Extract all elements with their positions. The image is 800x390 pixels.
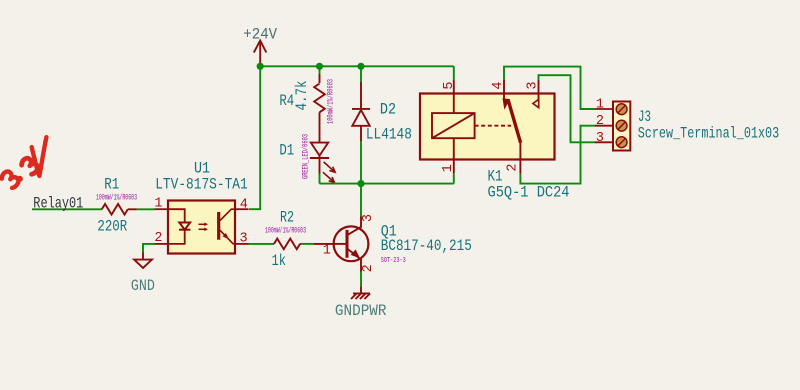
svg-text:4: 4 (491, 81, 506, 89)
bottom rail wire (320, 183, 454, 185)
svg-text:100mW/1%/R0603: 100mW/1%/R0603 (96, 193, 137, 202)
svg-text:R2: R2 (280, 209, 294, 227)
svg-text:3: 3 (240, 232, 248, 247)
wire R2 to Q1 base (249, 243, 274, 245)
diode D2 (360, 66, 362, 82)
svg-text:1: 1 (323, 244, 331, 259)
svg-text:1: 1 (154, 196, 162, 211)
svg-text:G5Q-1 DC24: G5Q-1 DC24 (488, 184, 570, 202)
annotation 3.3V handwritten (0, 137, 46, 189)
svg-text:2: 2 (596, 114, 604, 129)
wire U1 pin2 to GND (143, 244, 155, 253)
dashed link (475, 125, 511, 127)
pin stubs (155, 208, 169, 210)
svg-text:4.7k: 4.7k (293, 81, 311, 111)
svg-text:GNDPWR: GNDPWR (335, 302, 387, 320)
wire R1 to U1 pin1 (137, 208, 155, 210)
opto-coupler U1 (154, 159, 248, 253)
connector J3 (595, 98, 780, 151)
pin 2 (519, 143, 521, 174)
wire relay pin2 to J3 pin2 (520, 126, 594, 184)
svg-text:SOT-23-3: SOT-23-3 (381, 257, 406, 265)
wire relay pin4 to J3 pin1 (504, 67, 595, 109)
svg-text:4: 4 (240, 197, 248, 212)
svg-text:2: 2 (361, 264, 376, 272)
transistor Q1 (334, 217, 369, 272)
power +24V (254, 41, 266, 67)
pin 5 (453, 80, 455, 113)
svg-text:5: 5 (442, 81, 457, 89)
pin 1 (453, 138, 455, 173)
armature (508, 100, 521, 143)
svg-text:D2: D2 (380, 101, 396, 119)
svg-text:3: 3 (596, 131, 604, 146)
svg-text:3: 3 (525, 81, 540, 89)
ground GNDPWR (351, 286, 370, 299)
pin 3 + contact (538, 80, 540, 99)
svg-text:1: 1 (441, 164, 456, 172)
LED D1 (310, 143, 335, 183)
svg-text:Screw_Terminal_01x03: Screw_Terminal_01x03 (638, 125, 780, 143)
coil (432, 113, 475, 138)
svg-text:Relay01: Relay01 (33, 194, 83, 212)
svg-text:LTV-817S-TA1: LTV-817S-TA1 (155, 175, 248, 193)
svg-text:2: 2 (154, 231, 162, 246)
svg-text:+24V: +24V (243, 25, 277, 43)
wire D2 to bottom rail (360, 141, 362, 184)
wire +24V down to U1 pin4 (249, 66, 260, 209)
svg-text:GND: GND (131, 277, 155, 295)
phototransistor (217, 212, 220, 240)
svg-text:LL4148: LL4148 (366, 126, 412, 144)
svg-text:R4: R4 (279, 92, 294, 110)
wire +24V rail (260, 65, 454, 67)
wire Relay01 to R1 (32, 208, 101, 210)
svg-text:100mW/1%/R0603: 100mW/1%/R0603 (327, 79, 336, 124)
wire D1 to bottom rail (319, 174, 321, 184)
resistor R4 (314, 74, 325, 142)
svg-text:1k: 1k (272, 252, 287, 270)
coupling arrows (199, 223, 209, 232)
resistor R2 (274, 239, 302, 250)
svg-text:3: 3 (361, 214, 376, 222)
junction (357, 63, 364, 70)
svg-text:220R: 220R (97, 217, 127, 235)
svg-text:K1: K1 (488, 167, 503, 185)
svg-text:BC817-40,215: BC817-40,215 (381, 237, 472, 255)
wire relay pin3 to J3 pin3 (539, 75, 595, 142)
wire rail to relay pin5 (453, 66, 455, 80)
svg-text:2: 2 (506, 164, 521, 172)
junction (257, 63, 264, 70)
wire relay pin1 to rail (453, 173, 455, 184)
wire Q1 emitter to GNDPWR (360, 272, 362, 287)
svg-text:D1: D1 (279, 141, 294, 159)
svg-text:100mW/1%/R0603: 100mW/1%/R0603 (265, 226, 306, 235)
svg-text:1: 1 (596, 98, 604, 113)
svg-text:J3: J3 (638, 108, 651, 126)
junction (316, 63, 323, 70)
pin 4 (503, 80, 505, 100)
wire rail to Q1 collector (360, 184, 362, 217)
wire rail to R4 (319, 66, 321, 74)
ground GND (134, 253, 152, 269)
relay K1 (420, 80, 570, 202)
svg-text:GREEN_LED/0603: GREEN_LED/0603 (302, 134, 311, 179)
junction (357, 180, 364, 187)
resistor R1 (101, 204, 137, 215)
internal LED (168, 209, 185, 222)
svg-text:R1: R1 (104, 175, 119, 193)
